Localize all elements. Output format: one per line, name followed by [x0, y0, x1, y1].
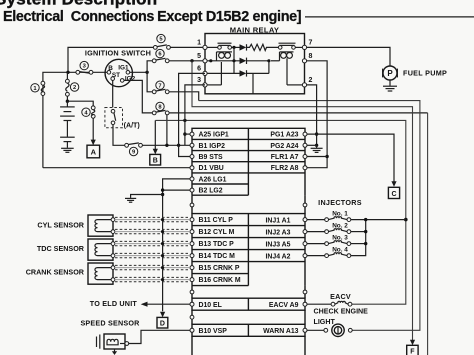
svg-text:B16 CRNK M: B16 CRNK M [199, 277, 241, 284]
svg-text:2: 2 [73, 85, 76, 91]
svg-text:IG1: IG1 [118, 65, 129, 72]
svg-text:P: P [387, 69, 393, 78]
svg-text:ST: ST [112, 72, 120, 79]
svg-text:8: 8 [309, 53, 313, 60]
svg-text:TO ELD UNIT: TO ELD UNIT [90, 299, 138, 308]
svg-text:B15 CRNK P: B15 CRNK P [199, 265, 240, 272]
svg-text:TDC SENSOR: TDC SENSOR [37, 244, 85, 253]
svg-text:7: 7 [309, 40, 313, 47]
svg-text:(A/T): (A/T) [124, 121, 141, 129]
svg-text:B13 TDC P: B13 TDC P [199, 241, 235, 248]
svg-text:INJ3 A5: INJ3 A5 [265, 241, 290, 248]
svg-text:A26 LG1: A26 LG1 [199, 176, 227, 183]
svg-text:CHECK ENGINE: CHECK ENGINE [314, 308, 369, 316]
svg-text:B: B [108, 65, 113, 72]
svg-text:EACV A9: EACV A9 [269, 302, 299, 309]
svg-text:6: 6 [197, 66, 201, 73]
svg-text:7: 7 [158, 83, 161, 89]
svg-text:CRANK SENSOR: CRANK SENSOR [26, 268, 85, 277]
svg-text:CYL SENSOR: CYL SENSOR [37, 221, 84, 230]
svg-text:PG2 A24: PG2 A24 [270, 143, 298, 150]
svg-text:B14 TDC M: B14 TDC M [199, 253, 236, 260]
svg-text:INJ1 A1: INJ1 A1 [265, 217, 290, 224]
svg-text:WARN A13: WARN A13 [263, 328, 299, 335]
svg-text:A: A [91, 148, 97, 157]
svg-text:Electrical ConnectionsExcept: Electrical ConnectionsExcept D15B2 engin… [3, 9, 301, 25]
svg-text:INJ4 A2: INJ4 A2 [265, 253, 290, 260]
svg-text:A25 IGP1: A25 IGP1 [199, 132, 229, 139]
svg-text:D10 EL: D10 EL [199, 302, 222, 309]
svg-text:B10 VSP: B10 VSP [199, 328, 228, 335]
svg-text:IG2: IG2 [125, 76, 136, 83]
svg-text:F: F [410, 349, 415, 355]
svg-text:B9 STS: B9 STS [199, 154, 224, 161]
svg-text:INJECTORS: INJECTORS [318, 198, 362, 207]
svg-text:SPEED SENSOR: SPEED SENSOR [80, 318, 140, 327]
svg-text:B2 LG2: B2 LG2 [199, 188, 223, 195]
svg-text:FLR1 A7: FLR1 A7 [271, 154, 299, 161]
svg-text:3: 3 [197, 77, 201, 84]
svg-text:FUEL PUMP: FUEL PUMP [403, 69, 447, 78]
svg-text:5: 5 [197, 53, 201, 60]
svg-text:IGNITION SWITCH: IGNITION SWITCH [85, 49, 151, 58]
svg-text:C: C [391, 191, 396, 198]
svg-text:INJ2 A3: INJ2 A3 [265, 229, 290, 236]
svg-text:B: B [153, 158, 158, 165]
svg-text:PG1 A23: PG1 A23 [270, 132, 298, 139]
svg-text:D1 VBU: D1 VBU [199, 165, 224, 172]
svg-text:EACV: EACV [330, 292, 351, 301]
svg-text:System Description: System Description [0, 0, 157, 9]
svg-text:B12 CYL M: B12 CYL M [199, 229, 235, 236]
svg-text:B1 IGP2: B1 IGP2 [199, 143, 226, 150]
svg-text:LIGHT: LIGHT [314, 318, 336, 326]
svg-text:D: D [160, 321, 165, 328]
svg-text:B11 CYL P: B11 CYL P [199, 217, 234, 224]
svg-text:FLR2 A8: FLR2 A8 [271, 165, 299, 172]
svg-text:1: 1 [197, 40, 201, 47]
svg-text:2: 2 [309, 77, 313, 84]
